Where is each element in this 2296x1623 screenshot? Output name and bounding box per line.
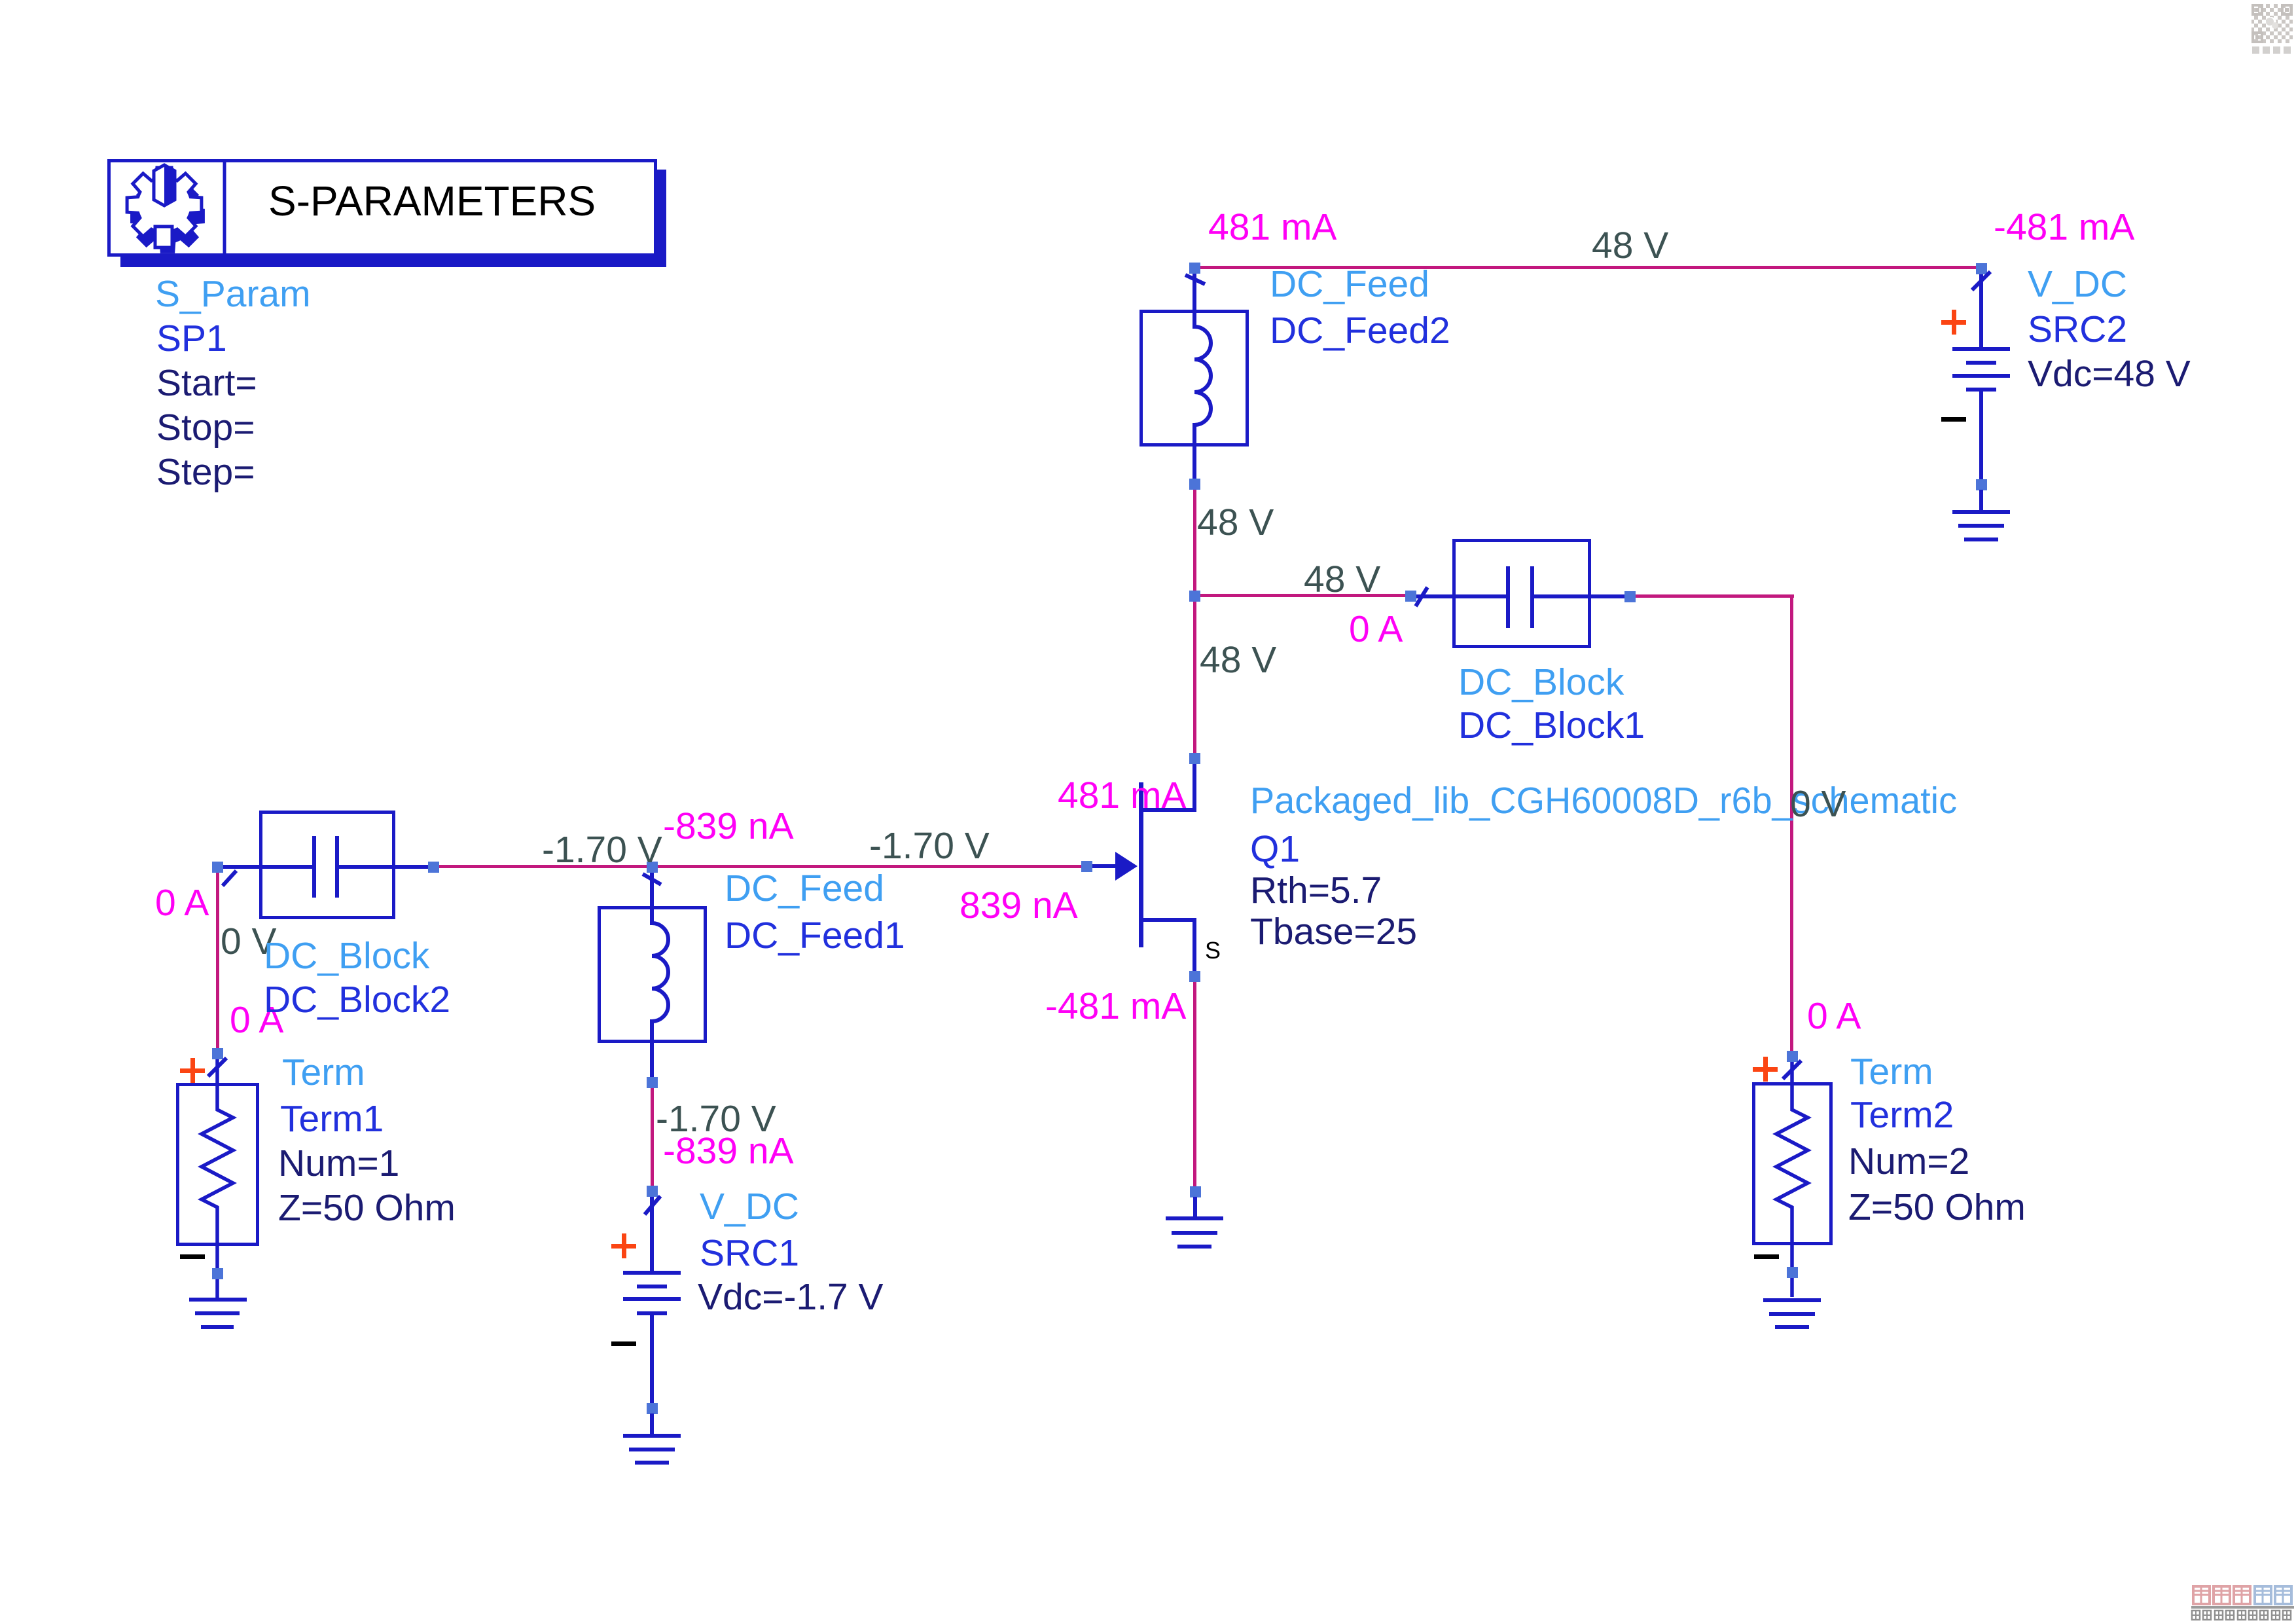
svg-text:SRC2: SRC2 <box>2028 308 2127 350</box>
port Term2 <box>1754 1061 1831 1297</box>
svg-text:Stop=: Stop= <box>156 407 255 448</box>
wire DC_Feed1 to SRC1 vertical <box>651 1084 654 1190</box>
svg-text:0 V: 0 V <box>1790 783 1846 825</box>
S-PARAMETERS controller block frame <box>109 161 656 255</box>
node SRC1 minus <box>647 1403 658 1414</box>
svg-text:839 nA: 839 nA <box>960 884 1078 926</box>
svg-text:DC_Block2: DC_Block2 <box>264 979 450 1021</box>
svg-text:Step=: Step= <box>156 451 255 493</box>
pin1 marker Term2 <box>1783 1061 1801 1079</box>
wire DC_Block1 to Term2 L-shape <box>1635 594 1794 1051</box>
watermark tagline characters <box>2192 1611 2291 1620</box>
wire drain net vertical <box>1193 489 1196 754</box>
svg-text:-1.70 V: -1.70 V <box>542 829 662 871</box>
svg-text:-839 nA: -839 nA <box>663 805 794 847</box>
svg-text:-481 mA: -481 mA <box>1045 985 1186 1027</box>
node DC_Block1 pin1 <box>1405 591 1416 602</box>
plus sign Term1 <box>180 1058 205 1083</box>
svg-text:DC_Block1: DC_Block1 <box>1458 704 1645 746</box>
node SRC2 minus <box>1976 479 1987 490</box>
S-PARAMETERS controller block shadow <box>120 170 666 267</box>
pin1 marker Term1 <box>208 1058 226 1076</box>
svg-text:481 mA: 481 mA <box>1208 206 1336 248</box>
inductor DC_Feed2 <box>1141 273 1247 481</box>
svg-text:Start=: Start= <box>156 362 257 404</box>
svg-text:48 V: 48 V <box>1200 639 1276 681</box>
wire Term1 to DC_Block2 vertical <box>216 868 219 1053</box>
QR code watermark top right <box>2251 4 2293 43</box>
wire drain to DC_Block1 horizontal <box>1200 594 1405 597</box>
inductor DC_Feed1 <box>600 872 706 1078</box>
capacitor DC_Block1 <box>1416 541 1628 647</box>
svg-text:DC_Feed2: DC_Feed2 <box>1270 310 1450 352</box>
node Term2 minus <box>1787 1267 1798 1278</box>
svg-text:48 V: 48 V <box>1592 225 1668 266</box>
svg-text:48 V: 48 V <box>1197 501 1274 543</box>
voltage source SRC1 <box>623 1196 681 1407</box>
node DC_Feed1 pin1 <box>647 862 658 873</box>
svg-text:Term1: Term1 <box>280 1098 384 1140</box>
svg-text:0 A: 0 A <box>1349 608 1403 650</box>
svg-text:481 mA: 481 mA <box>1058 775 1186 816</box>
watermark logo big characters <box>2193 1586 2291 1604</box>
node DC_Block1 pin2 <box>1624 591 1636 602</box>
pin1 marker DC_Feed1 <box>643 874 661 884</box>
ground Term1 <box>189 1298 247 1329</box>
svg-text:0 A: 0 A <box>1807 995 1861 1037</box>
svg-text:Z=50 Ohm: Z=50 Ohm <box>1848 1186 2026 1228</box>
node Term2 plus <box>1787 1051 1798 1062</box>
node Q1 source <box>1189 971 1200 982</box>
transistor Q1 <box>1092 763 1196 977</box>
svg-text:V_DC: V_DC <box>700 1186 799 1228</box>
node DC_Feed1 pin2 <box>647 1077 658 1088</box>
wire 48V rail horizontal top <box>1200 266 1976 269</box>
node DC_Block2 pin1 <box>212 862 223 873</box>
voltage source SRC2 <box>1952 274 2010 483</box>
svg-text:0 A: 0 A <box>155 882 209 924</box>
node DC_Block2 pin2 <box>428 862 439 873</box>
gear icon <box>127 165 205 253</box>
minus sign SRC1 <box>611 1341 636 1346</box>
wire gate net horizontal <box>433 865 1081 868</box>
ground Term2 <box>1763 1298 1821 1329</box>
wire SRC1 to ground <box>650 1413 654 1436</box>
wire SRC2 to ground <box>1979 490 1983 512</box>
pin1 marker DC_Block1 <box>1416 587 1427 606</box>
minus sign Term1 <box>180 1254 205 1259</box>
svg-text:S: S <box>1205 937 1221 964</box>
wire source to ground vertical <box>1193 981 1196 1186</box>
svg-text:48 V: 48 V <box>1304 558 1380 600</box>
svg-text:Q1: Q1 <box>1250 828 1300 870</box>
svg-text:S-PARAMETERS: S-PARAMETERS <box>268 177 596 225</box>
svg-text:Vdc=48 V: Vdc=48 V <box>2028 353 2191 395</box>
watermark underline <box>2191 1606 2294 1609</box>
svg-text:DC_Block: DC_Block <box>1458 661 1624 703</box>
svg-text:-1.70 V: -1.70 V <box>869 825 990 867</box>
plus sign Term2 <box>1753 1057 1778 1082</box>
minus sign Term2 <box>1754 1254 1779 1259</box>
node DC_Feed2 pin1 <box>1189 263 1200 274</box>
capacitor DC_Block2 <box>220 812 429 918</box>
wire source node to ground <box>1193 1197 1197 1219</box>
ground Q1 source <box>1166 1216 1223 1249</box>
pin1 marker DC_Block2 <box>223 871 236 886</box>
svg-text:Num=1: Num=1 <box>278 1142 399 1184</box>
plus sign SRC2 <box>1941 310 1966 335</box>
node DC_Feed2 pin2 <box>1189 479 1200 490</box>
node SRC2 plus <box>1976 263 1987 274</box>
svg-text:DC_Feed1: DC_Feed1 <box>725 915 905 957</box>
svg-text:DC_Feed: DC_Feed <box>725 867 884 909</box>
svg-text:Rth=5.7: Rth=5.7 <box>1250 869 1382 911</box>
svg-text:-481 mA: -481 mA <box>1994 206 2134 248</box>
svg-text:DC_Feed: DC_Feed <box>1270 263 1429 305</box>
node source ground <box>1190 1186 1201 1197</box>
svg-text:DC_Block: DC_Block <box>264 935 430 977</box>
node junction drain net <box>1189 591 1200 602</box>
svg-text:Num=2: Num=2 <box>1848 1140 1969 1182</box>
svg-text:S_Param: S_Param <box>155 273 311 315</box>
svg-text:Term: Term <box>282 1051 365 1093</box>
ground SRC1 <box>623 1434 681 1465</box>
plus sign SRC1 <box>611 1233 636 1258</box>
svg-text:Term2: Term2 <box>1850 1094 1954 1136</box>
pin1 marker DC_Feed2 <box>1185 275 1205 284</box>
S-PARAMETERS block divider <box>223 160 226 255</box>
pin1 marker SRC1 <box>645 1196 660 1214</box>
svg-text:-839 nA: -839 nA <box>663 1130 794 1172</box>
ground SRC2 <box>1952 510 2010 541</box>
node Term1 minus <box>212 1268 223 1279</box>
port Term1 <box>178 1059 258 1298</box>
QR caption characters <box>2252 46 2291 54</box>
minus sign SRC2 <box>1941 417 1966 422</box>
svg-text:Packaged_lib_CGH60008D_r6b_sch: Packaged_lib_CGH60008D_r6b_schematic <box>1250 780 1957 822</box>
svg-text:SRC1: SRC1 <box>700 1232 799 1274</box>
svg-text:SP1: SP1 <box>156 318 227 359</box>
svg-text:Z=50 Ohm: Z=50 Ohm <box>278 1187 456 1229</box>
svg-text:Term: Term <box>1850 1051 1933 1093</box>
svg-text:Tbase=25: Tbase=25 <box>1250 911 1417 953</box>
svg-text:V_DC: V_DC <box>2028 263 2127 305</box>
node Q1 drain <box>1189 753 1200 764</box>
svg-text:Vdc=-1.7 V: Vdc=-1.7 V <box>698 1276 884 1318</box>
pin1 marker SRC2 <box>1972 272 1990 290</box>
node SRC1 plus <box>647 1186 658 1197</box>
node Q1 gate <box>1081 861 1092 872</box>
node Term1 plus <box>212 1048 223 1059</box>
